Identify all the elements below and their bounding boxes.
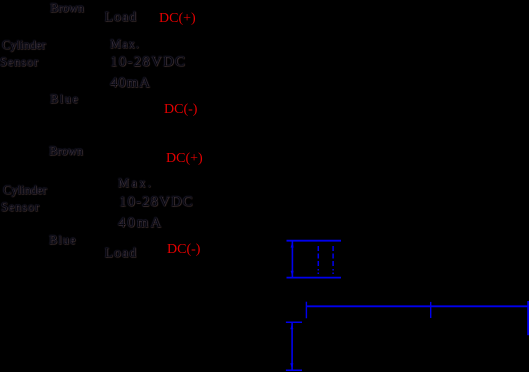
node brown S2 label [49, 145, 83, 158]
right edge vertical line [527, 301, 529, 335]
depth dim arrow up [290, 323, 293, 329]
depth dim bottom extension tick [286, 369, 302, 371]
groove height dim arrow down [291, 271, 294, 277]
depth dim top extension tick [286, 321, 302, 323]
depth dimension line [291, 322, 293, 370]
load LD2 box [104, 246, 139, 262]
node blue S1 label [50, 93, 80, 106]
sensor S1 label "Cylinder Sensor" [2, 39, 46, 52]
sensor S2 spec line 2 [119, 195, 194, 210]
node blue S2 label [49, 234, 77, 247]
sensor S2 body (black, invisible) [55, 172, 102, 244]
wire blue (S1 bottom wire, black invisible) [80, 108, 180, 109]
groove bottom edge line [287, 277, 342, 279]
node brown S1 label [50, 2, 84, 15]
net DC(-) S2 [167, 243, 200, 257]
load LD1 label [105, 11, 138, 25]
length dimension line [306, 305, 529, 307]
load LD2 label [105, 247, 138, 261]
net DC(-) S1 [164, 103, 197, 117]
length dim middle tick [430, 302, 432, 318]
load LD1 box [103, 8, 140, 27]
sensor S2 label "Cylinder Sensor" [3, 184, 47, 197]
length dim left tick [305, 302, 307, 319]
groove hidden line 1 (dashed) [317, 246, 319, 275]
groove top edge line [287, 240, 342, 242]
wire brown (S1 top wire, black invisible) [80, 17, 160, 18]
groove hidden line 2 (dashed) [332, 246, 334, 275]
net DC(+) S1 [159, 12, 196, 26]
wire brown (S2 top wire, black invisible) [80, 160, 160, 161]
wire blue (S2 bottom wire, black invisible) [80, 252, 180, 253]
sensor S1 spec line 2 [110, 55, 186, 70]
depth dim arrow down [290, 363, 293, 369]
groove height dimension line [291, 241, 293, 278]
net DC(+) S2 [166, 152, 203, 166]
sensor S1 body (black, invisible on black bg) [55, 30, 102, 102]
sensor S1 spec line 3 [110, 76, 151, 91]
sensor S2 spec line 1 [118, 177, 153, 190]
groove height dim arrow up [291, 241, 294, 247]
sensor S1 spec line 1 [110, 38, 140, 51]
sensor S2 spec line 3 [118, 216, 163, 231]
